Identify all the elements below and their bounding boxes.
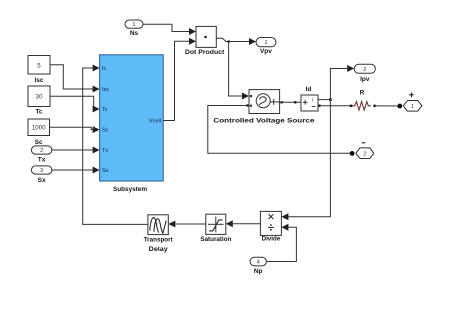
svg-text:4: 4: [257, 260, 260, 266]
svg-text:2: 2: [363, 67, 366, 73]
divide block (mirrored): [260, 211, 281, 242]
svg-text:2: 2: [40, 148, 43, 154]
inport Np (4): [250, 257, 266, 275]
current measurement block Id: [301, 86, 318, 111]
svg-text:Saturation: Saturation: [200, 236, 231, 243]
saturation block (mirrored): [200, 214, 231, 243]
constant block Sc value 1000: [28, 119, 50, 146]
svg-text:3: 3: [40, 168, 43, 174]
svg-text:1000: 1000: [32, 124, 46, 131]
outport Vpv (1): [256, 38, 276, 56]
wire Divide out to Saturation: [226, 220, 261, 227]
wire Id minus output to resistor: [318, 105, 352, 108]
resistor R: [352, 89, 376, 110]
wire CVS minus to minus node (bottom rail): [208, 106, 350, 154]
dot product block: [185, 26, 225, 55]
svg-text:5: 5: [37, 62, 41, 69]
wire Vcell to Dot Product in2: [163, 38, 196, 121]
svg-text:Sx: Sx: [102, 168, 109, 174]
feedback wire Transport Delay to Ic port: [83, 65, 148, 225]
constant block Tc value 30: [28, 86, 50, 116]
wire junction up to Ipv: [330, 65, 354, 100]
wire CVS plus to Id: [280, 101, 301, 103]
inport Sx (3): [31, 166, 52, 184]
connection port 2 (-): [356, 143, 374, 159]
constant block Isc value 5: [28, 56, 50, 84]
transport delay block (mirrored): [144, 215, 174, 253]
svg-text:Sx: Sx: [38, 177, 46, 184]
svg-text:1: 1: [133, 22, 136, 28]
wire branch to CVS s input: [229, 42, 249, 100]
wire Tx to Tx port: [52, 147, 100, 154]
svg-text:Vpv: Vpv: [260, 48, 272, 55]
junction node: [228, 40, 230, 42]
outport Ipv (2): [354, 64, 375, 83]
junction node i: [329, 98, 332, 101]
svg-text:Ipv: Ipv: [360, 76, 370, 83]
svg-text:Subsystem: Subsystem: [113, 186, 147, 193]
wire Dot Product out to Vpv: [216, 38, 256, 45]
svg-text:2: 2: [363, 151, 366, 157]
svg-text:Tx: Tx: [102, 148, 108, 154]
wire resistor to plus node: [376, 105, 398, 107]
wire 30 to Tc port: [50, 96, 100, 112]
wire 5 to Isc port: [50, 65, 100, 93]
wire Np to Divide divisor input: [266, 224, 296, 262]
wire 1000 to Sc port: [50, 126, 100, 133]
inport Tx (2): [31, 146, 52, 164]
svg-text:1: 1: [411, 104, 414, 110]
svg-text:Divide: Divide: [262, 236, 281, 243]
svg-text:Sc: Sc: [102, 128, 109, 134]
svg-text:30: 30: [36, 94, 43, 101]
wire Ns to Dot Product in1: [143, 24, 196, 35]
svg-text:1: 1: [265, 40, 268, 46]
svg-text:Dot Product: Dot Product: [185, 49, 225, 56]
wire junction down to Divide x-input: [281, 100, 330, 221]
svg-text:Isc: Isc: [102, 87, 109, 93]
inport Ns (1): [125, 20, 143, 37]
svg-text:Sc: Sc: [35, 139, 43, 146]
node minus terminal: [350, 151, 355, 156]
svg-text:R: R: [360, 89, 365, 96]
svg-text:Np: Np: [254, 268, 263, 275]
connection port 1 (+): [403, 93, 422, 112]
svg-text:Transport: Transport: [144, 237, 174, 244]
controlled voltage source CVS: [213, 90, 314, 125]
svg-text:Tx: Tx: [38, 157, 46, 164]
svg-text:Vcell: Vcell: [149, 119, 161, 125]
svg-text:Tc: Tc: [35, 109, 42, 116]
wire Id i-output to junction: [318, 99, 330, 101]
svg-text:Delay: Delay: [149, 246, 168, 253]
node plus terminal: [397, 104, 402, 109]
svg-text:Ic: Ic: [102, 66, 107, 72]
svg-text:Isc: Isc: [34, 77, 43, 84]
svg-text:Ns: Ns: [130, 30, 139, 37]
subsystem U1: [100, 55, 164, 193]
wire Sx to Sx port: [52, 167, 100, 174]
svg-text:Id: Id: [306, 86, 312, 93]
svg-text:Controlled Voltage Source: Controlled Voltage Source: [213, 118, 314, 125]
svg-text:Tc: Tc: [102, 107, 108, 113]
wire Saturation out to Transport Delay: [168, 221, 206, 228]
